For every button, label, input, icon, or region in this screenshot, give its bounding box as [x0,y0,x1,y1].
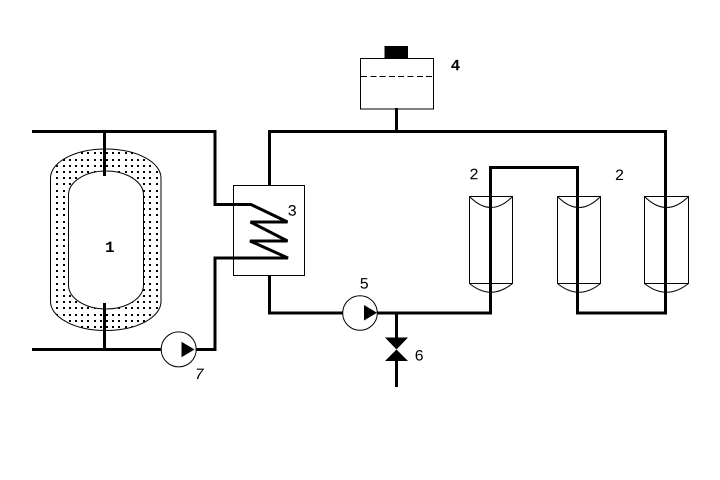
expansion tank 4 body [361,59,434,110]
wire: top stub into tank 1 [103,130,106,176]
wire: riser through column 3 up to header [664,130,667,315]
wire: drain below valve [395,360,398,387]
wire: crossover top of columns 1-2 [489,166,579,169]
wire: heat exchanger shell top inlet [268,130,271,186]
heat exchanger 3 shell [234,186,305,276]
wire: bottom-left return line [32,348,217,351]
wire: crossover bottom of columns 2-3 [576,312,667,315]
wire: valve branch down from tee [395,313,398,338]
label 2 left [470,169,477,180]
wire: top main header [268,130,667,133]
wire: heat exchanger shell bottom outlet [268,275,271,315]
wire: top-left supply line [32,132,215,205]
label 7 [197,369,204,379]
valve 6 [385,338,408,350]
wire: heat exchanger outlet down to return line [214,258,217,351]
wire: bottom stub from tank 1 [103,303,106,351]
column 2 (third) body [645,197,689,293]
pump 7 [161,332,196,367]
wire: tank 4 stem [395,108,398,133]
wire: downcomer through column 2 [576,166,579,315]
expansion tank 4 liquid level dashed line [361,76,433,78]
label 2 right [616,169,623,180]
tank 1 outer stippled wall [51,149,162,331]
column 2 (second) body [558,197,601,293]
tank 1 inner cavity [69,171,144,309]
label 1 [106,242,114,252]
label 3 [288,205,295,216]
expansion tank 4 cap [385,46,409,59]
wire: riser through column 1 [489,167,492,315]
pump 5 [343,296,378,331]
label 5 [360,278,367,289]
label 6 [416,350,423,361]
label 4 [451,60,459,70]
heat exchanger 3 coil [214,205,289,259]
wire: pump suction/discharge line to columns [268,312,492,315]
column 2 (first) body [470,197,513,293]
